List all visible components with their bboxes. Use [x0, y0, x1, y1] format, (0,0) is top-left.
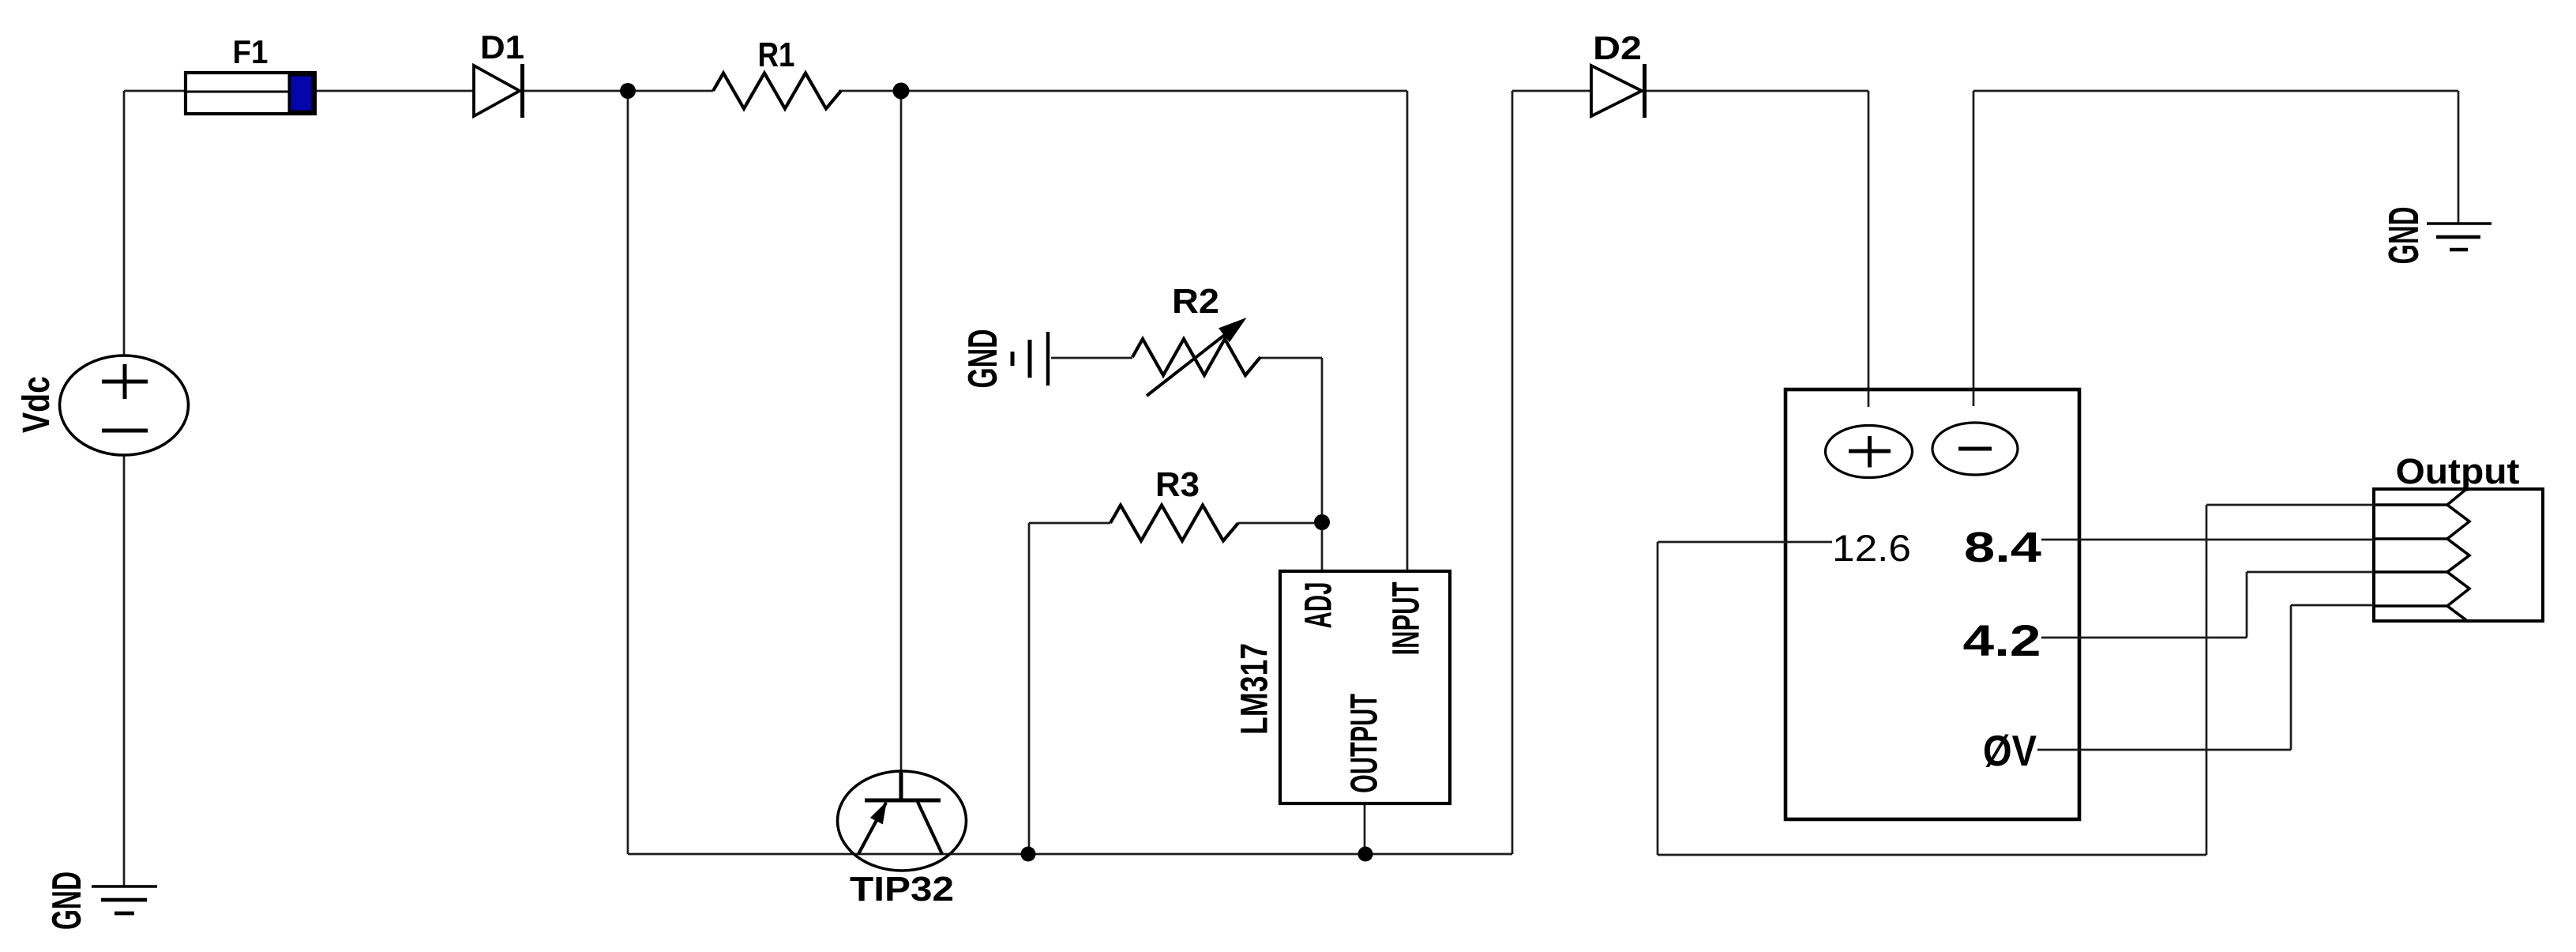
svg-text:R2: R2	[1172, 282, 1219, 321]
svg-text:F1: F1	[233, 33, 268, 70]
svg-text:Output: Output	[2396, 451, 2520, 491]
svg-text:ADJ: ADJ	[1298, 582, 1340, 629]
svg-text:12.6: 12.6	[1832, 527, 1911, 569]
svg-text:GND: GND	[2380, 207, 2428, 265]
svg-text:R3: R3	[1155, 465, 1200, 504]
svg-text:D2: D2	[1593, 29, 1642, 66]
svg-text:INPUT: INPUT	[1386, 582, 1428, 656]
svg-text:D1: D1	[480, 28, 524, 66]
svg-text:LM317: LM317	[1234, 643, 1276, 735]
svg-text:GND: GND	[44, 871, 90, 930]
svg-text:Vdc: Vdc	[16, 376, 58, 433]
svg-text:GND: GND	[960, 329, 1006, 389]
svg-text:OUTPUT: OUTPUT	[1344, 694, 1386, 793]
svg-text:R1: R1	[758, 36, 795, 74]
svg-text:ØV: ØV	[1983, 726, 2037, 775]
svg-text:TIP32: TIP32	[850, 870, 954, 909]
svg-text:4.2: 4.2	[1963, 615, 2041, 665]
svg-text:8.4: 8.4	[1964, 524, 2041, 571]
